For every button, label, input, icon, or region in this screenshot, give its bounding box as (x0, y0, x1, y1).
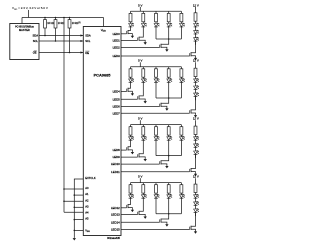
wire 5V rail group 2 (131, 66, 182, 68)
net label 12V group 3 (193, 117, 199, 125)
net label 5V group 2 (138, 59, 142, 67)
resistor group 4 branch 4 (167, 183, 170, 195)
wire parallel LED join group 3 (156, 140, 181, 156)
ground (131, 209, 134, 212)
net label 5V group 4 (138, 175, 142, 183)
svg-text:OE: OE (33, 51, 37, 55)
resistor group 2 branch 2 (142, 67, 145, 79)
note figure id (107, 236, 121, 240)
wire EXTCLK to ground bus (74, 178, 83, 180)
pin labels left side U1 (85, 34, 96, 234)
svg-text:VDD = 2.3 V, 3.3 V or 5.0 V: VDD = 2.3 V, 3.3 V or 5.0 V (12, 6, 49, 11)
net label 12V group 4 (193, 175, 199, 183)
wire A3 to ground bus (74, 207, 84, 209)
ground (131, 93, 134, 96)
resistor group 4 branch 5 (180, 183, 183, 195)
svg-text:002aaa435: 002aaa435 (107, 236, 121, 240)
LED indicator group 2 branch 2 (141, 78, 146, 82)
LED series group 2 number 1 (194, 78, 199, 86)
resistor group 2 branch 3 (155, 67, 158, 79)
svg-text:I²C-BUS/SMBus: I²C-BUS/SMBus (15, 25, 34, 29)
svg-text:A0: A0 (85, 186, 89, 190)
wire SDA (39, 34, 83, 36)
I2C bus master U2 (10, 24, 39, 60)
LED series group 3 number 3 (194, 150, 199, 158)
wire VDD to master (21, 18, 23, 24)
LED indicator group 2 branch 3 (154, 78, 159, 82)
LED indicator group 1 branch 5 (180, 23, 185, 27)
LED indicator group 3 branch 4 (167, 136, 172, 140)
transistor Q9 (121, 140, 132, 151)
svg-text:LED8: LED8 (113, 148, 121, 152)
svg-text:LED15: LED15 (111, 228, 120, 232)
svg-text:12 V: 12 V (193, 59, 199, 63)
LED series group 1 number 1 (194, 23, 199, 31)
svg-text:LED4: LED4 (113, 90, 121, 94)
wire 5V rail group 4 (131, 182, 182, 184)
resistor group 3 branch 5 (180, 125, 183, 137)
LED indicator group 4 branch 2 (141, 194, 146, 198)
svg-text:LED7: LED7 (113, 111, 121, 115)
resistor group 3 branch 2 (142, 125, 145, 137)
svg-text:SCL: SCL (33, 39, 39, 43)
resistor group 1 branch 3 (155, 11, 158, 23)
wire 5V rail group 3 (131, 124, 182, 126)
svg-text:LED11: LED11 (111, 170, 120, 174)
IC U1 PCA9685 (83, 27, 121, 236)
svg-text:LED1: LED1 (113, 39, 121, 43)
ground (194, 57, 197, 60)
transistor Q7 (121, 98, 169, 108)
wire VDD to PCA9685 VDD pin (103, 18, 105, 27)
svg-text:LED13: LED13 (111, 213, 120, 217)
ground (165, 108, 168, 111)
svg-text:A3: A3 (85, 204, 89, 208)
resistor group 1 branch 4 (167, 11, 170, 23)
LED series group 3 number 2 (194, 143, 199, 151)
net label 12V group 1 (193, 3, 199, 11)
net label 5V group 3 (138, 117, 142, 125)
resistor group 2 series string (194, 66, 197, 79)
ground (144, 216, 147, 219)
svg-text:EXTCLK: EXTCLK (85, 176, 96, 180)
svg-text:SDA: SDA (32, 34, 38, 38)
wire parallel LED join group 2 (156, 82, 181, 98)
resistor group 4 series string (194, 182, 197, 195)
svg-text:LED0: LED0 (113, 32, 121, 36)
svg-text:SCL: SCL (85, 39, 91, 43)
wire A1 to ground bus (74, 194, 84, 196)
svg-text:12 V: 12 V (193, 175, 199, 179)
transistor Q12 (121, 154, 196, 172)
LED series group 2 number 3 (194, 92, 199, 100)
ground symbol supply return (73, 237, 76, 240)
ground (131, 151, 134, 154)
resistor group 4 branch 2 (142, 183, 145, 195)
resistor group 2 branch 1 (129, 67, 132, 79)
LED indicator group 2 branch 5 (180, 78, 185, 82)
svg-text:LED5: LED5 (113, 97, 121, 101)
LED series group 1 number 2 (194, 30, 199, 38)
wire A4 to VDD bus end (64, 211, 83, 213)
resistor group 1 series string (194, 11, 197, 24)
wire VSS to ground bus (74, 230, 84, 232)
LED indicator group 2 branch 4 (167, 78, 172, 82)
LED series group 1 number 3 (194, 37, 199, 45)
ground (165, 49, 168, 52)
LED indicator group 4 branch 4 (167, 194, 172, 198)
transistor Q13 (121, 198, 132, 209)
resistor R1 10k pullup SDA (44, 18, 54, 36)
LED indicator group 4 branch 5 (180, 194, 185, 198)
wire parallel LED join group 4 (156, 198, 181, 214)
svg-text:5 V: 5 V (138, 117, 142, 121)
ground (165, 223, 168, 226)
svg-text:MASTER: MASTER (19, 28, 30, 32)
ground (144, 100, 147, 103)
ground (194, 231, 197, 234)
resistor R2 10k pullup SCL (54, 18, 64, 42)
svg-text:A5: A5 (85, 217, 89, 221)
svg-text:LED12: LED12 (111, 206, 120, 210)
LED indicator group 1 branch 3 (154, 23, 159, 27)
ground (144, 41, 147, 44)
svg-text:LED6: LED6 (113, 105, 121, 109)
svg-text:5 V: 5 V (138, 3, 142, 7)
net label 5V group 1 (138, 3, 142, 11)
wire parallel LED join group 1 (156, 27, 181, 40)
transistor Q2 (121, 27, 145, 42)
resistor group 4 branch 3 (155, 183, 158, 195)
wire VDD label tick (28, 10, 30, 18)
transistor Q4 (121, 41, 196, 57)
transistor Q14 (121, 198, 145, 215)
svg-text:5 V: 5 V (138, 175, 142, 179)
svg-text:A4: A4 (85, 211, 89, 215)
net label 12V group 2 (193, 59, 199, 66)
transistor Q1 (121, 27, 132, 35)
resistor group 2 branch 4 (167, 67, 170, 79)
svg-text:SDA: SDA (85, 34, 91, 38)
resistor group 4 branch 1 (129, 183, 132, 195)
svg-text:10 kΩ: 10 kΩ (47, 22, 54, 25)
ground (194, 114, 197, 117)
svg-text:OE: OE (85, 51, 89, 55)
svg-text:A1: A1 (85, 192, 89, 196)
LED indicator group 1 branch 1 (129, 23, 134, 27)
net label VDD supply (12, 6, 49, 11)
ground (144, 158, 147, 161)
wire ground bus (73, 179, 75, 237)
resistor group 1 branch 2 (142, 11, 145, 23)
LED indicator group 1 branch 4 (167, 23, 172, 27)
ground (165, 165, 168, 168)
transistor Q5 (121, 82, 132, 92)
ground (131, 35, 134, 38)
LED indicator group 3 branch 3 (154, 136, 159, 140)
LED indicator group 3 branch 2 (141, 136, 146, 140)
svg-text:LED9: LED9 (113, 155, 121, 159)
LED indicator group 1 branch 2 (141, 23, 146, 27)
svg-text:12 V: 12 V (193, 117, 199, 121)
wire VDD to address pins A0 A2 A4 (63, 18, 65, 213)
node rail junctions (44, 17, 70, 19)
resistor group 2 branch 5 (180, 67, 183, 79)
svg-text:LED2: LED2 (113, 46, 121, 50)
svg-text:10 kΩ: 10 kΩ (58, 22, 65, 25)
wire 5V rail group 1 (131, 10, 182, 12)
LED indicator group 3 branch 5 (180, 136, 185, 140)
transistor Q8 (121, 97, 196, 115)
LED series group 2 number 2 (194, 85, 199, 93)
transistor Q16 (121, 212, 196, 230)
resistor group 1 branch 1 (129, 11, 132, 23)
svg-text:LED10: LED10 (111, 162, 120, 166)
LED series group 4 number 2 (194, 201, 199, 209)
resistor group 3 branch 4 (167, 125, 170, 137)
resistor group 3 series string (194, 124, 197, 137)
wire A2 to VDD bus (63, 200, 83, 202)
LED series group 3 number 1 (194, 136, 199, 144)
transistor Q11 (121, 156, 169, 166)
transistor Q3 (121, 39, 169, 49)
svg-text:12 V: 12 V (193, 3, 199, 7)
LED series group 4 number 3 (194, 208, 199, 216)
svg-text:PCA9685: PCA9685 (94, 73, 112, 78)
wire A5 to ground bus (74, 219, 84, 221)
svg-text:5 V: 5 V (138, 59, 142, 63)
transistor Q6 (121, 82, 145, 100)
wire A0 to VDD bus (63, 188, 83, 190)
LED indicator group 3 branch 1 (129, 136, 134, 140)
LED indicator group 4 branch 3 (154, 194, 159, 198)
LED series group 4 number 1 (194, 194, 199, 202)
wire SCL (39, 40, 83, 42)
svg-text:LED3: LED3 (113, 54, 121, 58)
resistor R3 10k pullup OE (68, 18, 81, 53)
node pullup junctions (44, 35, 70, 54)
ground (194, 173, 197, 176)
svg-text:A2: A2 (85, 198, 89, 202)
pin labels right side U1 LED0-LED15 (111, 32, 120, 232)
LED indicator group 4 branch 1 (129, 194, 134, 198)
wire OE (39, 51, 83, 53)
resistor group 3 branch 3 (155, 125, 158, 137)
wire VDD rail (22, 17, 104, 19)
svg-text:LED14: LED14 (111, 220, 120, 224)
resistor group 3 branch 1 (129, 125, 132, 137)
resistor group 1 branch 5 (180, 11, 183, 23)
transistor Q15 (121, 214, 169, 224)
LED indicator group 2 branch 1 (129, 78, 134, 82)
transistor Q10 (121, 140, 145, 158)
